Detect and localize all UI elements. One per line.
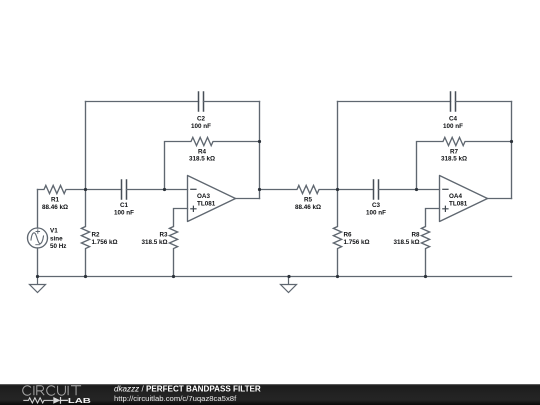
svg-text:318.5 kΩ: 318.5 kΩ (141, 239, 167, 246)
svg-text:R4: R4 (198, 149, 207, 156)
svg-text:100 nF: 100 nF (191, 123, 211, 130)
node R6 ground (336, 275, 339, 278)
node R3 ground (172, 275, 175, 278)
ground rail wire (38, 276, 512, 278)
svg-text:C3: C3 (372, 202, 381, 209)
wire (85, 102, 87, 190)
resistor R1 (38, 185, 86, 193)
resistor R3 (169, 209, 187, 277)
svg-text:R1: R1 (51, 197, 60, 204)
resistor R7 (417, 137, 512, 189)
wire (86, 101, 199, 103)
wire (379, 189, 440, 191)
svg-text:R5: R5 (304, 197, 313, 204)
node after R5 (336, 188, 339, 191)
wire (456, 101, 512, 103)
svg-text:C1: C1 (120, 202, 129, 209)
node at R7 tap (415, 188, 418, 191)
svg-text:TL081: TL081 (449, 201, 468, 208)
node R4 right (258, 140, 261, 143)
svg-text:R7: R7 (450, 149, 459, 156)
svg-text:88.46 kΩ: 88.46 kΩ (295, 204, 321, 211)
logo diode (53, 397, 60, 404)
svg-text:50 Hz: 50 Hz (50, 243, 66, 250)
svg-text:R6: R6 (344, 232, 353, 239)
ground (30, 277, 46, 293)
svg-text:http://circuitlab.com/c/7uqaz8: http://circuitlab.com/c/7uqaz8ca5x8f (114, 394, 237, 403)
svg-text:sine: sine (50, 236, 63, 243)
wire (86, 189, 122, 191)
node after R1 (84, 188, 87, 191)
resistor R6 (333, 190, 341, 277)
node R2 ground (84, 275, 87, 278)
svg-text:1.756 kΩ: 1.756 kΩ (344, 239, 370, 246)
op-amp OA4 (440, 176, 488, 222)
svg-text:R8: R8 (411, 232, 420, 239)
wire (127, 189, 188, 191)
wire (511, 102, 513, 199)
svg-text:LAB: LAB (68, 396, 91, 405)
svg-text:V1: V1 (50, 228, 58, 235)
svg-text:318.5 kΩ: 318.5 kΩ (393, 239, 419, 246)
svg-text:100 nF: 100 nF (443, 123, 463, 130)
wire (259, 102, 261, 199)
svg-text:OA3: OA3 (197, 193, 210, 200)
svg-text:88.46 kΩ: 88.46 kΩ (42, 204, 68, 211)
svg-text:1.756 kΩ: 1.756 kΩ (92, 239, 118, 246)
node R7 right (510, 140, 513, 143)
node OA3 output (258, 188, 261, 191)
resistor R8 (421, 209, 439, 277)
wire (37, 248, 39, 277)
voltage source V1 (28, 228, 48, 248)
svg-text:dkazzz / PERFECT BANDPASS FILT: dkazzz / PERFECT BANDPASS FILTER (114, 384, 261, 393)
resistor R4 (165, 137, 260, 189)
wire (488, 198, 512, 200)
wire (338, 189, 374, 191)
node V1 ground (36, 275, 39, 278)
node at R4 tap (163, 188, 166, 191)
capacitor C2 (199, 92, 204, 111)
resistor R5 (260, 185, 338, 193)
svg-text:318.5 kΩ: 318.5 kΩ (189, 156, 215, 163)
svg-text:OA4: OA4 (449, 193, 462, 200)
wire (204, 101, 260, 103)
wire (337, 102, 339, 190)
svg-text:C2: C2 (197, 116, 206, 123)
ground (281, 277, 297, 293)
CircuitLab logo text CIRCUIT (23, 386, 81, 396)
node R8 ground (424, 275, 427, 278)
capacitor C1 (122, 180, 127, 199)
resistor R2 (81, 190, 89, 277)
wire (338, 101, 451, 103)
node ground symbol 2 (287, 275, 290, 278)
svg-text:R3: R3 (159, 232, 168, 239)
wire (236, 198, 260, 200)
capacitor C4 (451, 92, 456, 111)
svg-text:C4: C4 (449, 116, 458, 123)
footer bar (0, 384, 540, 405)
svg-text:R2: R2 (92, 232, 101, 239)
op-amp OA3 (188, 176, 236, 222)
wire (37, 190, 39, 229)
capacitor C3 (374, 180, 379, 199)
svg-text:TL081: TL081 (197, 201, 216, 208)
svg-text:100 nF: 100 nF (114, 210, 134, 217)
svg-text:100 nF: 100 nF (366, 210, 386, 217)
logo resistor squiggle (23, 398, 53, 403)
svg-text:318.5 kΩ: 318.5 kΩ (441, 156, 467, 163)
